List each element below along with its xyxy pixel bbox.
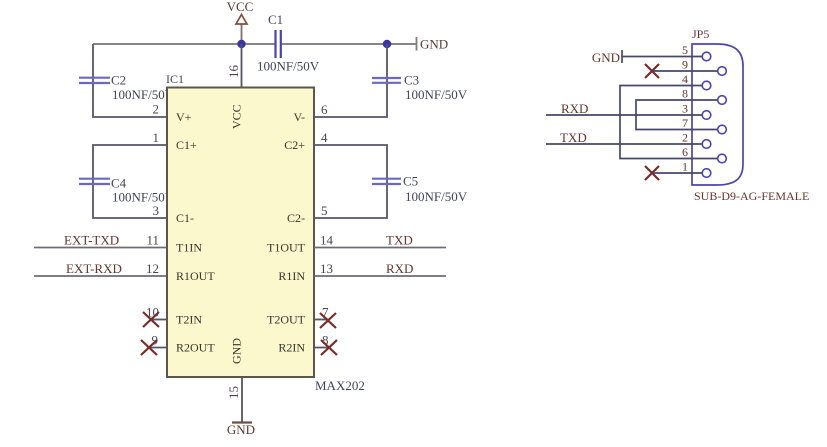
net TXD wire to JP5 pin 2 bbox=[546, 143, 702, 145]
svg-text:C1-: C1- bbox=[176, 211, 194, 225]
svg-text:GND: GND bbox=[227, 422, 255, 437]
svg-text:TXD: TXD bbox=[386, 233, 413, 248]
wire JP5 pin 9 bbox=[652, 70, 718, 72]
svg-text:5: 5 bbox=[682, 43, 688, 57]
svg-text:9: 9 bbox=[152, 333, 159, 348]
svg-text:1: 1 bbox=[153, 130, 160, 145]
svg-text:GND: GND bbox=[592, 50, 620, 65]
svg-text:C5: C5 bbox=[403, 174, 418, 189]
svg-text:16: 16 bbox=[226, 65, 241, 79]
svg-text:100NF/50V: 100NF/50V bbox=[405, 189, 468, 204]
svg-text:T2IN: T2IN bbox=[176, 313, 202, 327]
IC U1 MAX202 body bbox=[167, 88, 314, 378]
svg-text:SUB-D9-AG-FEMALE: SUB-D9-AG-FEMALE bbox=[694, 189, 809, 203]
svg-text:8: 8 bbox=[682, 87, 688, 101]
svg-text:5: 5 bbox=[321, 203, 328, 218]
wire stub pin 9 with no-connect bbox=[141, 340, 167, 355]
svg-text:MAX202: MAX202 bbox=[315, 378, 365, 393]
svg-text:R1IN: R1IN bbox=[278, 269, 305, 283]
svg-text:C2: C2 bbox=[111, 73, 126, 88]
wire pin 4 to pin 5 via C5 bbox=[314, 145, 387, 218]
svg-text:EXT-RXD: EXT-RXD bbox=[66, 261, 122, 276]
wire left bus upper bbox=[93, 44, 167, 117]
svg-text:IC1: IC1 bbox=[166, 72, 184, 86]
svg-text:13: 13 bbox=[320, 261, 333, 276]
node junction at VCC bbox=[237, 40, 245, 48]
wire pin 6 to C3 branch bbox=[314, 44, 387, 117]
svg-text:GND: GND bbox=[420, 37, 448, 52]
wire JP5 pin 1 bbox=[652, 172, 702, 174]
wire stub pin 10 with no-connect bbox=[143, 312, 167, 327]
svg-text:R2IN: R2IN bbox=[278, 341, 305, 355]
node junction at C3 branch bbox=[383, 40, 391, 48]
svg-text:1: 1 bbox=[682, 160, 688, 174]
power flag VCC bbox=[227, 0, 254, 44]
svg-text:T1IN: T1IN bbox=[176, 241, 202, 255]
svg-text:12: 12 bbox=[146, 261, 159, 276]
svg-text:3: 3 bbox=[682, 102, 688, 116]
ground GND at JP5 pin 5 bbox=[592, 50, 622, 65]
wire JP5 pin 5 bbox=[622, 56, 702, 58]
capacitor C3 bbox=[372, 73, 468, 103]
svg-text:VCC: VCC bbox=[227, 0, 254, 14]
svg-text:14: 14 bbox=[320, 233, 334, 248]
pin 15 wire GND bbox=[241, 377, 243, 423]
capacitor C2 bbox=[79, 73, 175, 103]
net TXD wire (pin 14) bbox=[314, 247, 446, 249]
svg-text:C4: C4 bbox=[111, 176, 127, 191]
wire top rail left segment bbox=[93, 43, 275, 45]
capacitor C5 bbox=[372, 174, 468, 205]
svg-text:9: 9 bbox=[682, 58, 688, 72]
no-connect JP5 pin 1 bbox=[645, 166, 659, 180]
svg-text:3: 3 bbox=[153, 203, 160, 218]
wire top rail right segment bbox=[282, 43, 417, 45]
svg-text:VCC: VCC bbox=[230, 104, 244, 129]
capacitor C4 bbox=[79, 176, 175, 205]
svg-text:R1OUT: R1OUT bbox=[176, 269, 215, 283]
svg-text:15: 15 bbox=[226, 386, 241, 399]
svg-text:C2+: C2+ bbox=[284, 138, 305, 152]
svg-text:V-: V- bbox=[293, 110, 305, 124]
svg-text:C2-: C2- bbox=[287, 211, 305, 225]
svg-text:7: 7 bbox=[682, 116, 688, 130]
wire JP5 pins 4-6 loopback bbox=[620, 86, 718, 159]
svg-text:2: 2 bbox=[682, 131, 688, 145]
svg-text:GND: GND bbox=[230, 338, 244, 364]
svg-text:T1OUT: T1OUT bbox=[267, 241, 306, 255]
svg-text:RXD: RXD bbox=[386, 261, 413, 276]
svg-text:JP5: JP5 bbox=[692, 27, 709, 41]
net EXT-RXD wire bbox=[34, 275, 167, 277]
connector pin circles bbox=[702, 52, 711, 61]
wire left bus lower bbox=[93, 145, 167, 218]
svg-text:6: 6 bbox=[682, 145, 688, 159]
net EXT-TXD wire bbox=[34, 247, 167, 249]
svg-text:100NF/50V: 100NF/50V bbox=[112, 190, 175, 205]
svg-text:TXD: TXD bbox=[560, 130, 587, 145]
capacitor C1 bbox=[257, 12, 320, 74]
svg-text:RXD: RXD bbox=[561, 101, 588, 116]
pin 16 wire VCC bbox=[241, 44, 243, 88]
svg-text:C1: C1 bbox=[268, 12, 283, 27]
svg-text:11: 11 bbox=[146, 233, 159, 248]
wire stub pin 7 with no-connect bbox=[314, 313, 336, 328]
svg-text:EXT-TXD: EXT-TXD bbox=[64, 233, 119, 248]
svg-text:4: 4 bbox=[321, 130, 328, 145]
svg-text:100NF/50V: 100NF/50V bbox=[405, 87, 468, 102]
net RXD wire to JP5 pin 3 bbox=[546, 114, 702, 116]
svg-text:V+: V+ bbox=[176, 110, 192, 124]
svg-text:4: 4 bbox=[682, 72, 688, 86]
ground GND bottom bbox=[227, 422, 255, 437]
svg-text:R2OUT: R2OUT bbox=[176, 341, 215, 355]
svg-text:100NF/50V: 100NF/50V bbox=[257, 59, 320, 74]
no-connect JP5 pin 9 bbox=[645, 64, 659, 78]
connector JP5 D-sub outline bbox=[692, 27, 809, 203]
svg-text:100NF/50V: 100NF/50V bbox=[112, 87, 175, 102]
svg-text:T2OUT: T2OUT bbox=[267, 313, 306, 327]
ground GND top right bbox=[417, 37, 449, 52]
wire stub pin 8 with no-connect bbox=[314, 340, 337, 355]
svg-text:C3: C3 bbox=[404, 73, 419, 88]
svg-text:2: 2 bbox=[153, 102, 160, 117]
svg-text:C1+: C1+ bbox=[176, 138, 197, 152]
net RXD wire (pin 13) bbox=[314, 275, 446, 277]
wire JP5 pins 8-7 loopback bbox=[636, 100, 718, 130]
svg-text:10: 10 bbox=[146, 305, 159, 320]
svg-text:6: 6 bbox=[321, 102, 328, 117]
